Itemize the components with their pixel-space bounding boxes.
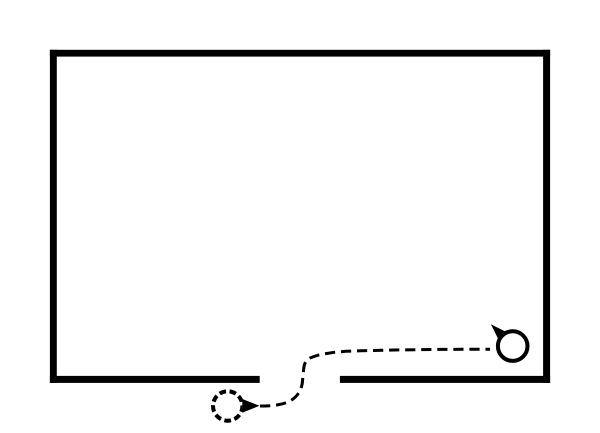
- start pose arrowhead: [242, 399, 259, 413]
- trajectory dashed path: [260, 349, 490, 406]
- start pose dashed circle: [213, 391, 242, 420]
- goal pose arrowhead: [491, 324, 505, 338]
- wall left: [50, 50, 57, 383]
- wall right: [543, 50, 550, 383]
- goal pose circle: [498, 331, 528, 361]
- wall top: [50, 50, 550, 57]
- wall bottom-left segment: [50, 376, 260, 383]
- wall bottom-right segment (door gap between x=260 and x=340): [340, 376, 550, 383]
